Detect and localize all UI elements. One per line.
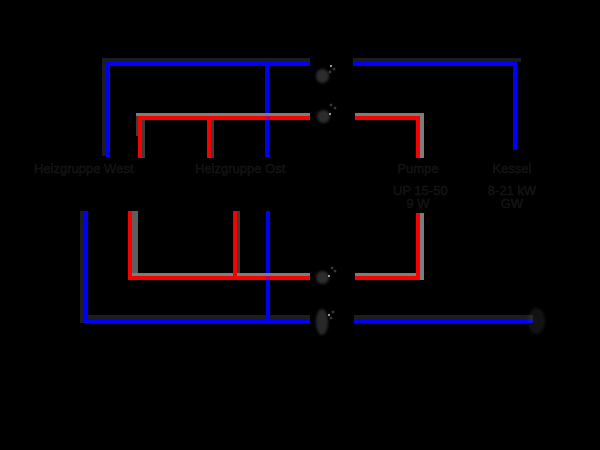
wire: top return blue horizontal right part <box>353 62 517 66</box>
gray casing above bottom supply red horizontal left part <box>132 273 310 277</box>
halo left of bottom blue vertical radiator 1 <box>80 211 84 323</box>
valve V1 on top blue line <box>316 69 329 83</box>
label: pump <box>393 162 443 210</box>
wire: top return blue horizontal left part <box>106 62 311 66</box>
halo left of blue riser radiator 1 top <box>102 58 106 157</box>
arrow at end of bottom blue line <box>528 308 545 334</box>
wire: bottom blue vertical radiator 2 <box>266 211 271 323</box>
halo above bottom return blue horizontal left part <box>80 315 310 319</box>
junction tint where top red supply crosses blue riser <box>266 116 271 120</box>
gray casing right of red vertical lower segment near pump <box>420 213 424 280</box>
gray casing right of red vertical upper segment near pump <box>420 113 424 159</box>
wire: bottom supply red horizontal right part <box>355 276 420 280</box>
gray casing right of red drop radiator 1 <box>142 116 145 158</box>
halo above bottom return blue horizontal right part <box>354 315 533 319</box>
valve V4 on bottom blue line <box>316 309 328 335</box>
gray casing above top supply red horizontal left part <box>136 113 310 117</box>
wire: red vertical upper segment above pump label <box>416 116 420 158</box>
wire: red drop to radiator 2 top <box>207 116 211 158</box>
wire: bottom return blue horizontal left part <box>84 319 310 323</box>
gray casing right of red drop radiator 2 <box>211 116 214 158</box>
wire: top supply red horizontal left part <box>138 116 310 120</box>
label: radiator group 2 <box>195 162 285 175</box>
junction tint where bottom red supply crosses blue drop <box>266 276 271 280</box>
valve V2 on top red line <box>317 110 330 123</box>
wire: bottom red vertical radiator 1 <box>128 211 132 281</box>
valve V3 on bottom red line <box>316 271 329 284</box>
gray casing right of bottom red vertical radiator 1 <box>132 211 138 277</box>
gray casing right of bottom red vertical radiator 2 <box>237 211 240 277</box>
wire: bottom return blue horizontal right part ending with arrow <box>354 319 533 323</box>
gray casing left of red drop radiator 1 <box>136 116 139 136</box>
label: radiator group 1 <box>34 162 133 175</box>
wire: blue riser vertical right to boiler <box>513 62 517 151</box>
wire: blue riser vertical radiator 2 top <box>265 62 269 157</box>
gray casing above bottom supply red horizontal right part <box>355 273 416 277</box>
halo above top return blue horizontal right part <box>353 58 521 62</box>
label: boiler <box>487 162 537 210</box>
wire: bottom blue vertical radiator 1 <box>84 211 88 323</box>
halo above top return blue horizontal left part <box>102 58 311 62</box>
wire: top supply red horizontal right part <box>355 116 420 120</box>
wire: red drop to radiator 1 top <box>138 116 142 158</box>
gray casing above top supply red horizontal right part <box>355 113 424 117</box>
wire: bottom supply red horizontal left part <box>128 276 310 280</box>
wire: red vertical lower segment below pump label <box>416 213 420 280</box>
wire: bottom red vertical radiator 2 <box>233 211 238 277</box>
wire: blue riser vertical radiator 1 top <box>106 62 110 157</box>
